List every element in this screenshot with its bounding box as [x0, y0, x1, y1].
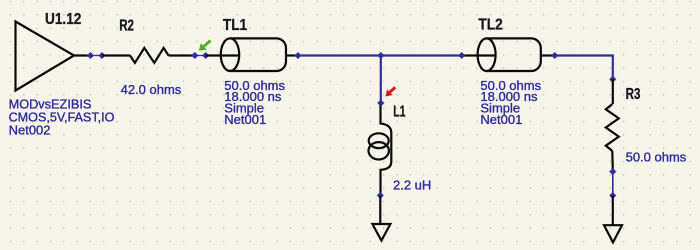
- node dot TL2-in: [458, 52, 465, 59]
- U1 output pin: [74, 54, 91, 56]
- node dot gnd-top: [609, 192, 616, 199]
- R2 left pin: [102, 54, 130, 56]
- node dot TL2-out: [551, 52, 558, 59]
- node dot R3-top: [609, 76, 616, 83]
- svg-text:R2: R2: [119, 17, 134, 34]
- node dot L1-top: [377, 99, 384, 106]
- wire junction down to L1: [380, 56, 382, 104]
- TL2 output pin: [541, 54, 555, 56]
- svg-text:U1.12: U1.12: [45, 11, 82, 28]
- R3 top pin: [612, 79, 614, 104]
- svg-text:L1: L1: [393, 103, 406, 120]
- resistor R3: [606, 104, 619, 151]
- node dot TL1-out: [294, 52, 301, 59]
- svg-text:Net001: Net001: [224, 112, 266, 127]
- green probe arrow: [199, 40, 211, 50]
- R2 right pin: [169, 54, 195, 56]
- op-amp buffer U1: [16, 22, 75, 91]
- inductor L1: [369, 105, 392, 193]
- TL2 input pin: [462, 54, 496, 56]
- node dot R2-out: [191, 52, 198, 59]
- node dot TL1-in: [202, 52, 209, 59]
- node dot U1-out: [87, 52, 94, 59]
- svg-text:Net002: Net002: [9, 122, 51, 137]
- svg-text:R3: R3: [626, 86, 641, 103]
- ground lead (R3): [612, 196, 614, 225]
- svg-text:TL1: TL1: [223, 17, 247, 34]
- svg-text:Net001: Net001: [480, 112, 522, 127]
- svg-text:50.0 ohms: 50.0 ohms: [626, 150, 687, 165]
- wire U1 to R2: [91, 55, 103, 57]
- R3 bottom pin: [611, 151, 614, 172]
- node dot R2-in: [98, 52, 105, 59]
- node dot L1-bottom: [377, 192, 384, 199]
- svg-text:TL2: TL2: [478, 17, 503, 34]
- svg-text:2.2 uH: 2.2 uH: [393, 177, 431, 192]
- node dot R3-bottom: [609, 168, 616, 175]
- wire R2 to TL1: [195, 55, 206, 57]
- TL1 input pin: [206, 54, 239, 56]
- svg-text:42.0 ohms: 42.0 ohms: [121, 82, 182, 97]
- TL1 output pin: [286, 54, 298, 56]
- ground (R3): [604, 225, 622, 242]
- wire TL1 to TL2: [298, 54, 462, 56]
- ground (L1): [372, 224, 390, 241]
- wire TL2 to R3: [555, 56, 613, 80]
- red probe arrow: [386, 87, 396, 96]
- resistor R2: [130, 48, 169, 63]
- ground lead (L1): [379, 195, 381, 224]
- junction node L1 branch: [377, 52, 384, 59]
- transmission line TL2: [478, 38, 541, 71]
- transmission line TL1: [221, 38, 286, 71]
- wire R3 to ground: [612, 172, 614, 196]
